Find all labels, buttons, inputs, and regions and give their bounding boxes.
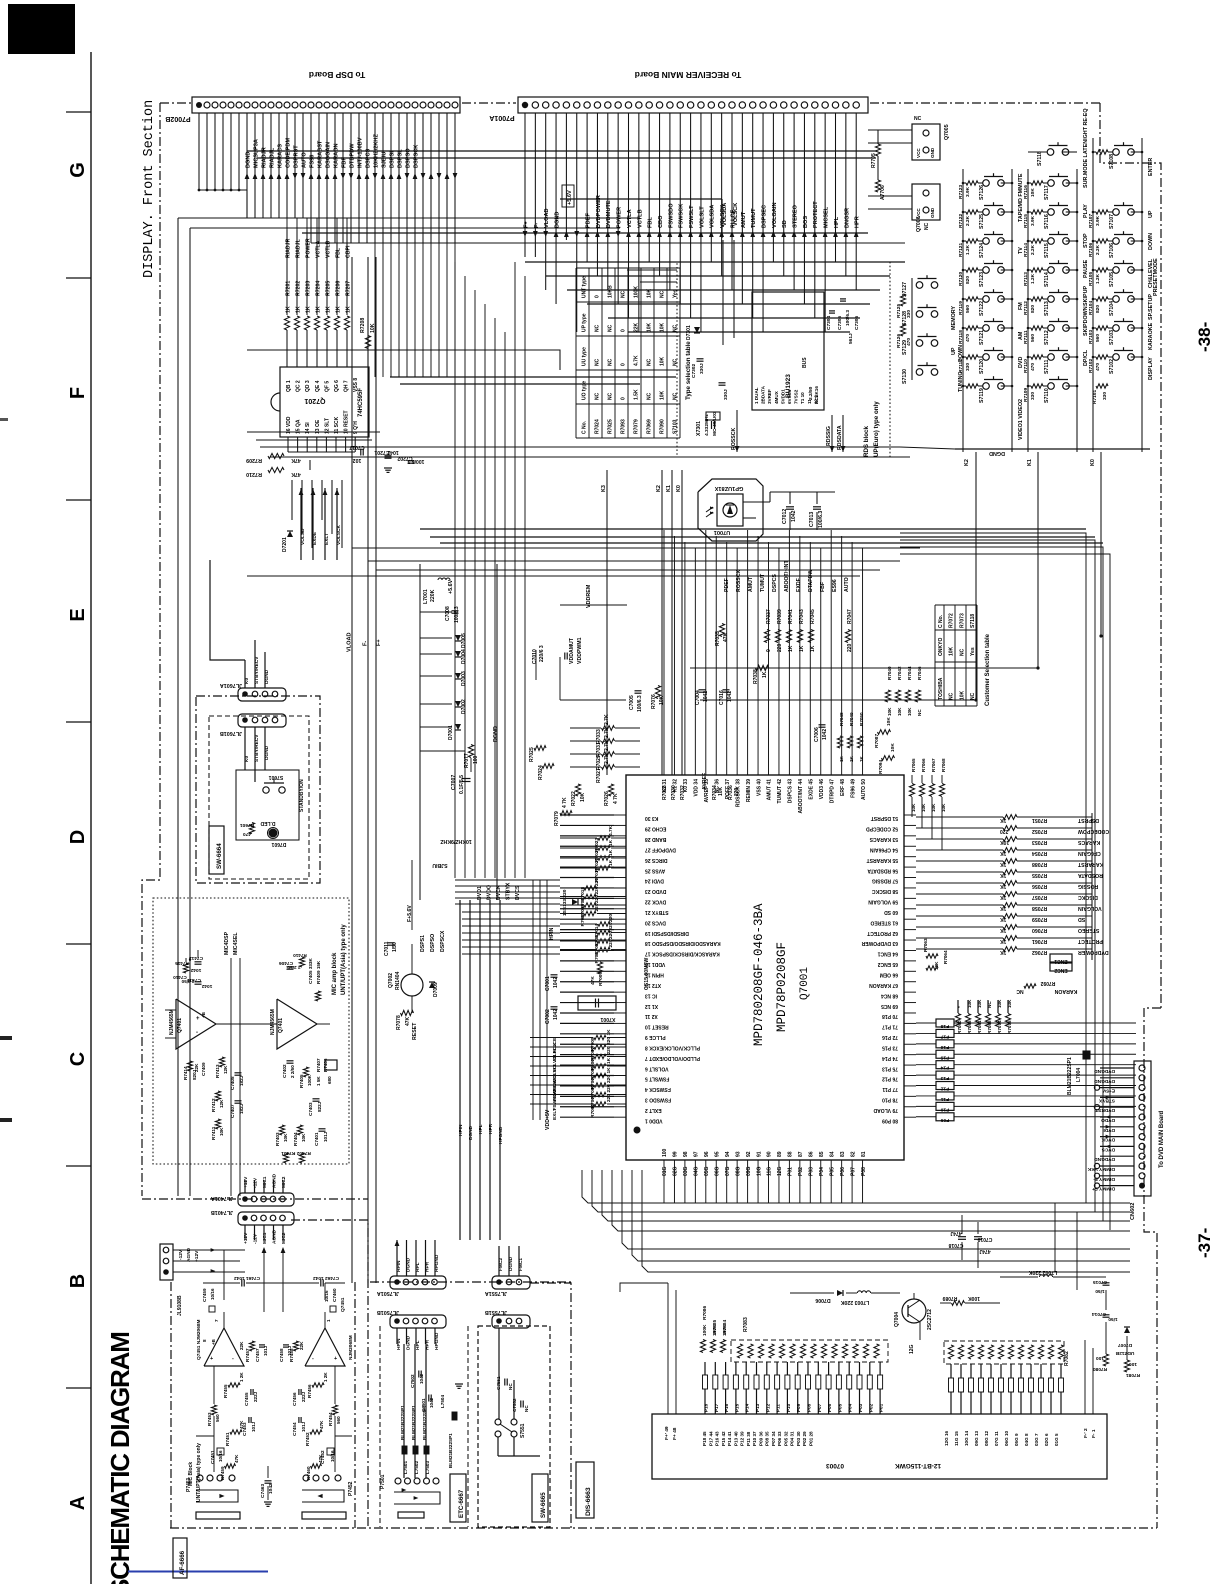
svg-text:DVDPOFF 27: DVDPOFF 27: [645, 846, 676, 852]
diode D7301: [694, 327, 700, 333]
key matrix column K0: [1092, 138, 1094, 452]
svg-text:1K: 1K: [1000, 817, 1007, 823]
svg-text:C No.: C No.: [938, 614, 944, 628]
svg-text:PDEF: PDEF: [586, 212, 592, 228]
svg-text:65 ENC2: 65 ENC2: [877, 961, 898, 967]
svg-text:NC: NC: [595, 392, 601, 400]
resistor R7076 10K: [655, 686, 660, 699]
svg-text:P13: P13: [755, 1403, 760, 1412]
svg-text:Customer Selection table: Customer Selection table: [985, 633, 991, 706]
CN602 arrows: [1106, 1095, 1111, 1099]
svg-text:Yes: Yes: [970, 647, 976, 656]
svg-text:1K: 1K: [608, 859, 614, 866]
svg-text:VIDEO1 VIDEO2: VIDEO1 VIDEO2: [1018, 399, 1024, 440]
svg-text:S7115: S7115: [1044, 243, 1050, 258]
svg-text:R7051: R7051: [1032, 817, 1047, 823]
svg-text:12G: 12G: [777, 1166, 783, 1176]
resistors R7080 R7081 100: [1103, 1354, 1108, 1366]
svg-text:1K: 1K: [608, 839, 614, 846]
svg-text:56 RDSDATA: 56 RDSDATA: [867, 867, 898, 873]
svg-text:P01: P01: [879, 1403, 884, 1412]
capacitor C7007 0.1F/5.5: [462, 778, 471, 780]
svg-text:R7082: R7082: [1064, 1351, 1070, 1366]
svg-text:R7056: R7056: [1032, 883, 1047, 889]
ground at C7201: [384, 467, 392, 469]
capacitors C7451 C7452 10/16: [217, 1448, 224, 1455]
svg-text:FBL: FBL: [336, 247, 342, 258]
svg-text:L7504: L7504: [440, 1395, 445, 1408]
svg-text:R7080: R7080: [1093, 1366, 1107, 1372]
svg-text:P05: P05: [829, 1167, 835, 1176]
wires RDSSIG RDSDATA: [831, 415, 833, 452]
capacitor C7461 1042: [241, 1280, 243, 1287]
switch S7601: [263, 787, 269, 793]
svg-text:102: 102: [353, 457, 362, 463]
capacitor C7017 102: [360, 449, 362, 456]
svg-text:220: 220: [777, 643, 783, 652]
svg-text:UP(Euro) type only: UP(Euro) type only: [873, 401, 880, 457]
svg-text:560: 560: [1030, 334, 1036, 342]
svg-text:R7102: R7102: [1088, 359, 1094, 373]
svg-text:R7069: R7069: [647, 419, 653, 434]
resistor R7077 100: [468, 745, 473, 758]
op-amp Q7451a NJM2068M: [204, 1328, 244, 1366]
SW-6664 boxed label: [209, 826, 224, 874]
svg-text:R7601: R7601: [240, 822, 254, 828]
svg-text:S7121: S7121: [979, 330, 985, 345]
svg-text:11G 15: 11G 15: [954, 1431, 959, 1446]
svg-text:P07 34: P07 34: [771, 1431, 776, 1446]
svg-text:QC 2: QC 2: [296, 380, 302, 392]
svg-text:09G: 09G: [746, 1166, 752, 1176]
svg-text:S7106: S7106: [1109, 243, 1115, 258]
svg-text:C7006: C7006: [814, 727, 820, 742]
svg-text:R7090: R7090: [660, 419, 666, 434]
svg-text:0: 0: [595, 295, 601, 298]
JL7601A pin wires: [244, 660, 246, 688]
switch S7113 with resistor R7112: [1031, 297, 1043, 301]
CN602 NC circles: [1094, 1085, 1099, 1090]
svg-text:R7038: R7038: [753, 669, 759, 684]
resistors R7040-R7046 10K column: [885, 690, 890, 702]
svg-text:Type selection table: Type selection table: [685, 341, 692, 400]
svg-text:5VDD1: 5VDD1: [780, 389, 785, 404]
svg-text:R7022: R7022: [571, 791, 577, 806]
dash-dot SW-6665 block box: [478, 1326, 550, 1527]
svg-text:FSWSDO: FSWSDO: [668, 203, 674, 228]
svg-text:10/16: 10/16: [330, 1450, 335, 1462]
svg-text:AF-6666: AF-6666: [179, 1550, 186, 1575]
svg-text:SJBIU: SJBIU: [432, 862, 448, 868]
svg-text:DTAPDW: DTAPDW: [808, 570, 814, 592]
svg-text:R7208: R7208: [360, 318, 366, 333]
svg-text:4.332MHz: 4.332MHz: [704, 414, 710, 436]
svg-text:F- 1: F- 1: [1091, 1429, 1097, 1438]
svg-text:R7025: R7025: [529, 747, 535, 762]
svg-text:101J: 101J: [301, 1421, 306, 1432]
svg-text:10K: 10K: [897, 707, 902, 716]
svg-text:Q7401: Q7401: [177, 1018, 183, 1033]
resistor R7009 47K: [597, 962, 602, 974]
switch S7117 with resistor R7116: [1031, 181, 1043, 185]
svg-text:+5.6V: +5.6V: [448, 579, 454, 594]
svg-text:S7601: S7601: [269, 774, 284, 780]
svg-text:D7006: D7006: [815, 1297, 830, 1303]
svg-text:07G: 07G: [725, 1166, 731, 1176]
svg-text:CODE/PDM: CODE/PDM: [285, 138, 291, 168]
svg-text:47K: 47K: [239, 1420, 244, 1429]
svg-text:1.5K: 1.5K: [634, 389, 640, 400]
svg-text:K0: K0: [1090, 459, 1096, 466]
collector buses under P7001A: [525, 261, 905, 263]
resistors R7401 R7402: [283, 1153, 288, 1163]
svg-text:R7009: R7009: [598, 972, 604, 986]
svg-text:2.7K: 2.7K: [604, 753, 610, 764]
svg-text:1042: 1042: [703, 691, 709, 702]
svg-text:RIADJL: RIADJL: [296, 238, 302, 258]
svg-text:1K: 1K: [1000, 938, 1007, 944]
svg-text:KARAON: KARAON: [333, 143, 339, 168]
svg-text:220/6 3: 220/6 3: [539, 645, 545, 662]
svg-text:JL7401A: JL7401A: [211, 1195, 233, 1201]
svg-text:EXLT 2: EXLT 2: [645, 1107, 662, 1113]
capacitor C7014 1/50: [1103, 1314, 1110, 1316]
SW-6664 outer dash-dot box: [196, 696, 320, 883]
svg-text:561J: 561J: [848, 333, 854, 344]
svg-text:RDS block: RDS block: [863, 425, 870, 457]
svg-text:R7024: R7024: [595, 419, 601, 434]
svg-text:VDD3 46: VDD3 46: [819, 779, 825, 800]
resistor R7025: [534, 746, 546, 751]
svg-text:NC: NC: [673, 392, 679, 400]
svg-text:P11: P11: [941, 1096, 950, 1102]
svg-text:R7061: R7061: [1032, 938, 1047, 944]
svg-text:R7047: R7047: [847, 609, 853, 624]
svg-text:10K: 10K: [1030, 188, 1036, 197]
svg-text:U7001: U7001: [714, 529, 730, 535]
svg-text:P16: P16: [940, 1044, 949, 1050]
diode D7002: [455, 701, 461, 707]
svg-text:6VSS1: 6VSS1: [787, 389, 792, 404]
resistor R7038 1K: [756, 665, 769, 670]
svg-text:QF 5: QF 5: [324, 381, 330, 392]
svg-text:AMUT: AMUT: [748, 576, 754, 592]
svg-text:62 PROTECT: 62 PROTECT: [867, 930, 898, 936]
dash-dot AF-6666 block box: [170, 1282, 172, 1528]
svg-text:R7105: R7105: [1088, 272, 1094, 286]
svg-text:47K: 47K: [291, 471, 301, 477]
wires across middle: [352, 547, 920, 549]
svg-text:NJM4565M: NJM4565M: [270, 1009, 276, 1035]
svg-text:R7081: R7081: [1126, 1372, 1140, 1378]
svg-text:93: 93: [735, 1151, 741, 1157]
svg-text:10/16: 10/16: [210, 1288, 215, 1300]
svg-text:1K: 1K: [306, 306, 312, 313]
svg-text:VSS 40: VSS 40: [756, 779, 762, 796]
svg-text:S7117: S7117: [1044, 185, 1050, 200]
svg-text:S7112: S7112: [1044, 330, 1050, 345]
svg-text:96: 96: [704, 1151, 710, 1157]
svg-text:HPL: HPL: [834, 216, 840, 228]
mic jack P7451: [197, 1475, 203, 1481]
svg-text:DSPSCX: DSPSCX: [440, 930, 446, 952]
svg-text:-37-: -37-: [1195, 1228, 1214, 1258]
svg-text:P04: P04: [819, 1167, 825, 1176]
svg-text:KARAON: KARAON: [1054, 988, 1077, 994]
svg-text:R7402 R7401: R7402 R7401: [281, 1150, 311, 1156]
svg-text:NC: NC: [595, 324, 601, 332]
svg-text:P12 39: P12 39: [740, 1431, 745, 1446]
svg-text:BOS: BOS: [803, 216, 809, 228]
resistor R7089 100K: [952, 1301, 965, 1306]
svg-text:22K: 22K: [239, 1341, 244, 1350]
svg-text:R7041: R7041: [788, 609, 794, 624]
svg-text:1 2K: 1 2K: [239, 1372, 244, 1382]
resistor R7405 100K: [303, 1067, 308, 1077]
svg-text:DVDGND: DVDGND: [1094, 1156, 1115, 1162]
+5.6V boxed label: [562, 185, 574, 207]
coil L7002 220K: [1039, 1275, 1052, 1277]
svg-text:P18: P18: [940, 1023, 949, 1029]
svg-text:D7002: D7002: [461, 699, 467, 714]
svg-text:C7461 1042: C7461 1042: [234, 1275, 260, 1281]
svg-text:KARABST: KARABST: [317, 140, 323, 168]
svg-text:R7451: R7451: [225, 1432, 230, 1446]
svg-text:1K: 1K: [346, 306, 352, 313]
svg-text:BUS: BUS: [802, 357, 808, 368]
svg-text:C7454: C7454: [292, 1422, 297, 1436]
svg-text:DSPCS 43: DSPCS 43: [788, 779, 794, 803]
svg-text:1K: 1K: [1000, 861, 1007, 867]
svg-text:75 P13: 75 P13: [882, 1065, 898, 1071]
svg-text:10G: 10G: [756, 1166, 762, 1176]
capacitor C7501 1042: [428, 1395, 430, 1402]
svg-text:R7049: R7049: [849, 712, 854, 726]
svg-text:330J: 330J: [723, 389, 729, 400]
svg-text:FSWSDO 3: FSWSDO 3: [645, 1097, 671, 1103]
switch S7105 with resistor R7105: [1096, 268, 1108, 272]
svg-text:R7088: R7088: [1032, 861, 1047, 867]
svg-text:4.7K: 4.7K: [608, 825, 614, 836]
svg-text:04G: 04G: [694, 1166, 700, 1176]
svg-text:NC: NC: [608, 392, 614, 400]
svg-text:1K: 1K: [1000, 949, 1007, 955]
switch S7122 with resistor R7119: [966, 297, 978, 301]
svg-text:94: 94: [725, 1151, 731, 1157]
svg-text:DGND: DGND: [245, 152, 251, 168]
svg-text:PLLCE 9: PLLCE 9: [645, 1034, 666, 1040]
svg-text:Q7006: Q7006: [916, 216, 922, 232]
svg-text:R7028: R7028: [662, 785, 668, 800]
Q7201 bottom pin wires: [287, 437, 289, 452]
svg-text:S7113: S7113: [1044, 301, 1050, 316]
svg-text:P7452: P7452: [348, 1481, 354, 1496]
svg-text:470: 470: [243, 831, 251, 837]
connector JL7601B: [238, 714, 286, 727]
svg-text:+5.6V: +5.6V: [567, 190, 573, 205]
wires from IC bottom pins to bus: [663, 1200, 665, 1203]
resistors R7403 R7404 10K: [279, 1125, 284, 1135]
svg-text:P03: P03: [858, 1403, 863, 1412]
svg-text:IC 13: IC 13: [645, 992, 657, 998]
svg-text:FBL: FBL: [648, 217, 654, 228]
svg-text:Q7001: Q7001: [799, 967, 811, 1000]
K scan vertical wires: [606, 470, 608, 775]
svg-text:VOLSCK: VOLSCK: [733, 203, 739, 226]
zener diode D7007 UDZ12B: [1124, 1327, 1130, 1333]
svg-text:P05: P05: [837, 1403, 842, 1412]
svg-text:R7067: R7067: [931, 758, 936, 772]
capacitor C7302 330J: [697, 358, 704, 360]
svg-text:Q7004: Q7004: [894, 1312, 900, 1327]
svg-text:220: 220: [608, 914, 614, 922]
svg-text:DGND: DGND: [554, 212, 560, 228]
svg-text:P16 43: P16 43: [715, 1431, 720, 1446]
svg-text:1K: 1K: [1000, 905, 1007, 911]
svg-text:4 7K: 4 7K: [562, 797, 568, 808]
svg-text:47K: 47K: [723, 632, 729, 642]
svg-text:0: 0: [621, 397, 627, 400]
bus wire mid: [247, 350, 560, 370]
svg-text:+B: +B: [201, 1011, 206, 1018]
power rail stubs: [420, 611, 452, 613]
resistor R7412 12K: [215, 1091, 220, 1101]
feedback C7458 R7458: [283, 1344, 289, 1346]
svg-text:NC: NC: [608, 358, 614, 366]
svg-text:2SC2712: 2SC2712: [927, 1309, 933, 1330]
svg-text:R7054: R7054: [1032, 850, 1047, 856]
svg-text:FSWSLT 5: FSWSLT 5: [645, 1076, 670, 1082]
svg-text:04G 8: 04G 8: [1024, 1433, 1029, 1446]
svg-text:K0: K0: [676, 485, 682, 492]
svg-text:-38-: -38-: [1195, 322, 1214, 352]
svg-text:P03 30: P03 30: [796, 1431, 801, 1446]
switch S7114 with resistor R7113: [1031, 268, 1043, 272]
svg-text:100: 100: [662, 1148, 668, 1157]
svg-text:DSPRST: DSPRST: [293, 145, 299, 168]
svg-text:P02 29: P02 29: [802, 1431, 807, 1446]
svg-text:1K: 1K: [286, 306, 292, 313]
svg-text:S7103: S7103: [673, 419, 679, 434]
svg-text:HPGND: HPGND: [498, 1126, 504, 1144]
wires from Q7001 left edge short stubs: [560, 814, 614, 816]
svg-text:-: -: [196, 1030, 198, 1036]
svg-text:85: 85: [819, 1151, 825, 1157]
svg-text:JL7401B: JL7401B: [211, 1209, 233, 1215]
svg-text:0: 0: [766, 649, 772, 652]
svg-text:PROTECT: PROTECT: [1077, 938, 1103, 944]
svg-text:0: 0: [621, 363, 627, 366]
svg-text:R7084: R7084: [722, 1320, 728, 1334]
svg-text:1: 1: [326, 1319, 331, 1322]
svg-text:16 VDD: 16 VDD: [286, 416, 292, 434]
switch S7102 with resistor R7102: [1096, 355, 1108, 359]
svg-text:474J: 474J: [950, 1230, 961, 1236]
svg-text:UDZ12B: UDZ12B: [1115, 1350, 1134, 1356]
resistors R7011-R7014 220 rows: [598, 922, 610, 926]
svg-text:S7103: S7103: [1109, 330, 1115, 345]
svg-text:VDDPWM1: VDDPWM1: [577, 637, 583, 664]
svg-text:C7457: C7457: [255, 1348, 260, 1362]
svg-text:7VSS2: 7VSS2: [794, 389, 799, 404]
connector Q7006: [912, 184, 940, 220]
svg-text:220: 220: [847, 643, 853, 652]
svg-text:330: 330: [965, 363, 971, 371]
svg-text:R7106: R7106: [1088, 243, 1094, 257]
svg-text:81: 81: [861, 1151, 867, 1157]
svg-text:STANDBY/ON: STANDBY/ON: [299, 779, 305, 812]
svg-text:02G: 02G: [673, 1166, 679, 1176]
svg-text:DGND: DGND: [493, 726, 499, 742]
connector JL7501B: [390, 1315, 446, 1328]
svg-text:DVDGND: DVDGND: [1094, 1078, 1115, 1084]
svg-text:182J: 182J: [239, 1103, 244, 1114]
svg-text:F+' 49: F+' 49: [664, 1426, 670, 1440]
svg-text:01G 5: 01G 5: [1054, 1433, 1059, 1446]
svg-text:R7064: R7064: [943, 950, 948, 964]
P1x boxed labels: [936, 1019, 954, 1027]
svg-text:AGND: AGND: [272, 1173, 278, 1188]
svg-text:DVCK 22: DVCK 22: [645, 899, 666, 905]
svg-text:K3: K3: [601, 485, 607, 492]
svg-text:69 NC5: 69 NC5: [881, 1003, 898, 1009]
svg-text:C7015: C7015: [1093, 1279, 1107, 1285]
svg-text:R7055: R7055: [1032, 872, 1047, 878]
svg-text:99: 99: [673, 1151, 679, 1157]
svg-text:1K: 1K: [296, 306, 302, 313]
RDS block top wires: [627, 269, 677, 271]
svg-text:P04: P04: [848, 1403, 853, 1412]
svg-text:470: 470: [1095, 363, 1101, 371]
svg-text:51 DSPRST: 51 DSPRST: [871, 815, 898, 821]
svg-text:10K: 10K: [949, 646, 955, 656]
svg-text:S7551: S7551: [520, 1423, 526, 1438]
svg-text:R7096: R7096: [987, 1020, 992, 1034]
svg-text:P09: P09: [796, 1403, 801, 1412]
svg-text:92: 92: [746, 1151, 752, 1157]
bus wires to right side: [260, 446, 900, 448]
svg-text:EXDF: EXDF: [796, 578, 802, 592]
svg-text:560: 560: [1095, 334, 1101, 342]
svg-text:1K: 1K: [1000, 894, 1007, 900]
dash-dot border headphone row: [370, 1281, 571, 1283]
svg-text:NC: NC: [621, 290, 627, 298]
svg-text:R7407: R7407: [316, 1058, 321, 1072]
svg-text:R7119: R7119: [958, 301, 964, 315]
outer dash-dot border around CN602: [1144, 1008, 1161, 1528]
svg-text:54 CP66AIN: 54 CP66AIN: [870, 846, 898, 852]
svg-text:C7409: C7409: [201, 1062, 206, 1076]
svg-text:DVDGND: DVDGND: [1094, 1068, 1115, 1074]
svg-text:222J: 222J: [253, 1391, 258, 1402]
svg-text:BLM21B222SP1: BLM21B222SP1: [1067, 1057, 1073, 1095]
capacitor C7411 1042: [195, 981, 202, 983]
svg-text:820: 820: [1095, 305, 1101, 313]
svg-text:PDEF: PDEF: [724, 578, 730, 592]
svg-text:DSPSI: DSPSI: [389, 151, 395, 168]
svg-text:R7103: R7103: [1088, 330, 1094, 344]
svg-text:PLLCK/VOLCK/EXCK 8: PLLCK/VOLCK/EXCK 8: [645, 1044, 700, 1050]
svg-text:820: 820: [1030, 305, 1036, 313]
svg-text:STBYX 21: STBYX 21: [645, 909, 669, 915]
capacitor C7012 1042: [786, 506, 794, 508]
svg-text:05G: 05G: [704, 1166, 710, 1176]
svg-text:AUTO 50: AUTO 50: [861, 779, 867, 800]
svg-text:KARAOKE: KARAOKE: [1148, 322, 1154, 350]
svg-text:C7462 1042: C7462 1042: [313, 1275, 339, 1281]
svg-text:220: 220: [734, 787, 740, 796]
svg-text:X7301: X7301: [696, 421, 702, 436]
